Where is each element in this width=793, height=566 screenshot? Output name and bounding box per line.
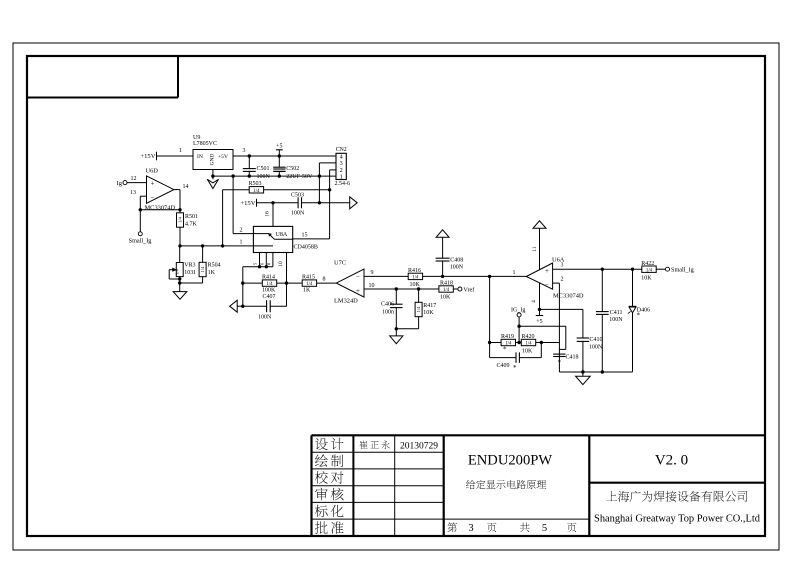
svg-text:VR3: VR3 — [184, 263, 195, 269]
svg-text:2: 2 — [240, 228, 243, 234]
svg-text:R503: R503 — [249, 181, 262, 187]
svg-text:+15V: +15V — [140, 153, 155, 160]
svg-text:2: 2 — [561, 277, 564, 283]
svg-text:100n: 100n — [382, 309, 394, 315]
svg-text:13: 13 — [130, 190, 136, 196]
svg-text:ENDU200PW: ENDU200PW — [468, 453, 553, 469]
svg-text:C408: C408 — [450, 257, 463, 263]
svg-text:Ig: Ig — [117, 180, 123, 187]
svg-text:10: 10 — [369, 283, 375, 289]
svg-text:+: + — [151, 179, 155, 187]
svg-text:100N: 100N — [291, 211, 305, 217]
svg-text:Small_Ig: Small_Ig — [129, 238, 152, 245]
svg-text:100K: 100K — [262, 288, 276, 294]
svg-text:10K: 10K — [440, 295, 451, 301]
svg-text:1: 1 — [179, 148, 182, 154]
svg-text:Small_Ig: Small_Ig — [671, 267, 694, 274]
svg-text:10K: 10K — [522, 348, 533, 354]
svg-text:1/4: 1/4 — [306, 282, 313, 287]
svg-text:C411: C411 — [610, 310, 623, 316]
svg-text:R418: R418 — [440, 281, 453, 287]
svg-text:C410: C410 — [590, 337, 603, 343]
svg-text:C503: C503 — [291, 193, 304, 199]
svg-text:1/4: 1/4 — [200, 266, 205, 272]
svg-text:R501: R501 — [185, 214, 198, 220]
svg-text:+: + — [545, 267, 549, 275]
svg-text:U9: U9 — [193, 135, 200, 141]
svg-text:CD4058B: CD4058B — [294, 244, 318, 250]
svg-text:C406: C406 — [381, 301, 394, 307]
svg-text:2.54-6: 2.54-6 — [335, 181, 351, 187]
svg-text:10K: 10K — [423, 310, 434, 316]
svg-text:15: 15 — [302, 233, 308, 239]
svg-text:MC33074D: MC33074D — [553, 293, 584, 300]
svg-text:1: 1 — [240, 240, 243, 246]
svg-text:R504: R504 — [208, 263, 221, 269]
svg-text:−: − — [356, 273, 360, 281]
svg-text:3: 3 — [468, 523, 473, 534]
svg-text:GND: GND — [210, 154, 216, 166]
svg-text:R416: R416 — [408, 268, 421, 274]
svg-text:1K: 1K — [303, 288, 311, 294]
svg-text:1: 1 — [340, 173, 343, 180]
svg-text:U7C: U7C — [334, 259, 346, 266]
svg-text:1/4: 1/4 — [253, 189, 260, 194]
svg-text:10: 10 — [278, 261, 284, 267]
svg-text:100N: 100N — [257, 174, 271, 180]
svg-text:*: * — [558, 359, 562, 367]
svg-text:+15V: +15V — [240, 200, 255, 207]
svg-text:11: 11 — [532, 246, 538, 252]
svg-text:100N: 100N — [589, 345, 603, 351]
svg-text:C407: C407 — [263, 294, 276, 300]
svg-text:L7805VC: L7805VC — [193, 141, 217, 147]
svg-text:1/4: 1/4 — [178, 216, 183, 222]
svg-text:16: 16 — [265, 211, 271, 217]
svg-text:+: + — [356, 287, 360, 295]
svg-text:8: 8 — [323, 277, 326, 283]
svg-text:1/4: 1/4 — [266, 282, 273, 287]
svg-text:U8A: U8A — [276, 232, 288, 238]
svg-text:*: * — [513, 364, 517, 372]
svg-text:C501: C501 — [257, 166, 270, 172]
svg-text:IN: IN — [197, 154, 203, 160]
svg-text:C502: C502 — [286, 166, 299, 172]
svg-text:R419: R419 — [501, 334, 514, 340]
svg-text:3: 3 — [561, 263, 564, 269]
svg-text:*: * — [637, 312, 641, 320]
svg-text:+5V: +5V — [218, 154, 228, 160]
svg-text:R415: R415 — [302, 275, 315, 281]
svg-text:MC33074D: MC33074D — [145, 205, 176, 212]
svg-text:3: 3 — [243, 148, 246, 154]
svg-text:20130729: 20130729 — [400, 442, 438, 452]
svg-text:1/4: 1/4 — [416, 306, 421, 312]
svg-text:1K: 1K — [208, 270, 216, 276]
svg-text:C409: C409 — [497, 363, 510, 369]
svg-text:1: 1 — [513, 270, 516, 276]
svg-text:103I: 103I — [184, 270, 195, 276]
svg-text:−: − — [151, 194, 155, 202]
svg-text:12: 12 — [131, 176, 137, 182]
svg-text:5: 5 — [542, 523, 547, 534]
svg-text:*: * — [503, 345, 507, 353]
svg-text:CN2: CN2 — [336, 147, 347, 153]
svg-text:10K: 10K — [410, 282, 421, 288]
svg-text:1/4: 1/4 — [525, 342, 532, 347]
svg-text:100N: 100N — [450, 265, 464, 271]
svg-text:1/4: 1/4 — [412, 276, 419, 281]
svg-text:Shanghai Greatway Top Power CO: Shanghai Greatway Top Power CO.,Ltd — [594, 513, 761, 524]
svg-text:10K: 10K — [641, 276, 652, 282]
svg-text:1/4: 1/4 — [443, 288, 450, 293]
svg-text:1/4: 1/4 — [646, 268, 653, 273]
svg-text:+5: +5 — [536, 319, 542, 325]
svg-text:U6D: U6D — [146, 168, 159, 175]
svg-text:R420: R420 — [522, 334, 535, 340]
svg-text:9: 9 — [371, 270, 374, 276]
svg-text:R414: R414 — [262, 275, 275, 281]
svg-text:4.7K: 4.7K — [185, 221, 198, 227]
svg-text:Vref: Vref — [463, 286, 475, 293]
svg-text:100N: 100N — [609, 317, 623, 323]
svg-text:V2. 0: V2. 0 — [655, 453, 688, 469]
svg-text:R417: R417 — [423, 303, 436, 309]
svg-text:14: 14 — [183, 184, 189, 190]
svg-text:LM324D: LM324D — [334, 298, 358, 305]
svg-text:22UF-50V: 22UF-50V — [286, 174, 313, 180]
svg-text:+5: +5 — [276, 143, 282, 149]
svg-text:R422: R422 — [641, 261, 654, 267]
svg-text:−: − — [545, 281, 549, 289]
svg-text:C418: C418 — [566, 355, 579, 361]
svg-text:100N: 100N — [258, 315, 272, 321]
